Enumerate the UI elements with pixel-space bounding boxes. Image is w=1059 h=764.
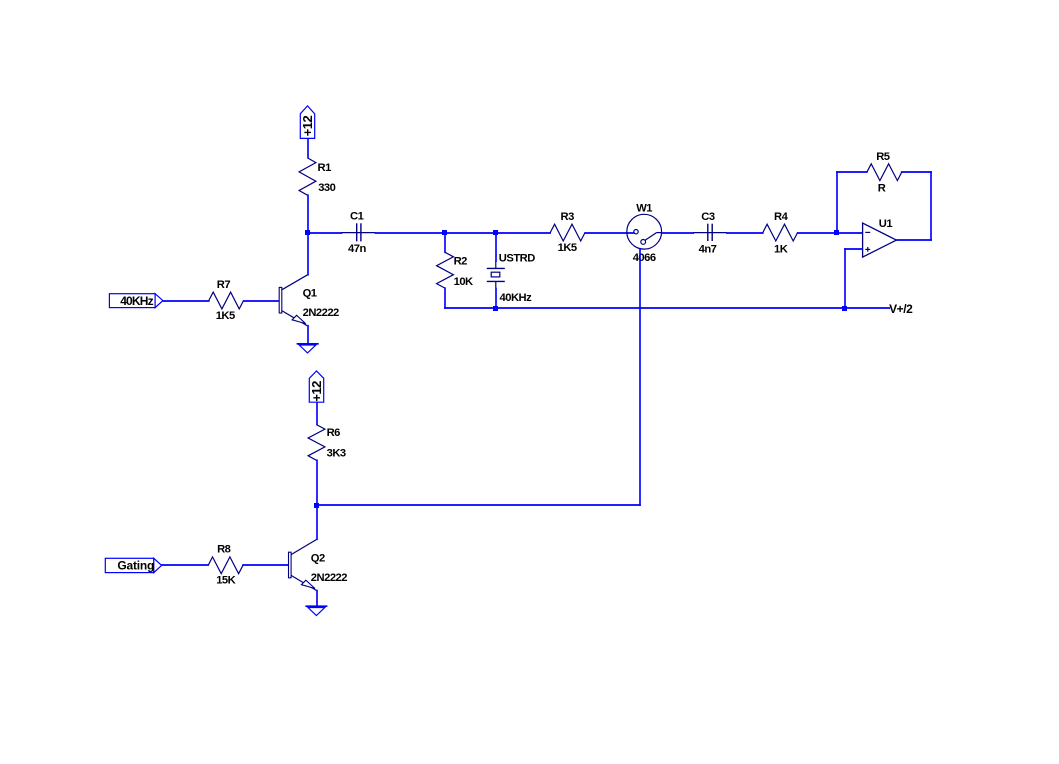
ground (Q1) <box>297 344 318 353</box>
wire R6 to node G <box>316 460 318 504</box>
resistor R8 <box>208 544 243 587</box>
wire feedback right vertical <box>930 172 932 240</box>
svg-text:40KHz: 40KHz <box>500 292 533 304</box>
svg-text:U1: U1 <box>879 218 893 230</box>
svg-text:Q1: Q1 <box>303 287 317 299</box>
wire R1 to node A <box>307 195 309 232</box>
input flag 40KHz <box>109 294 162 308</box>
wire 40KHz flag to R7 <box>164 300 209 302</box>
wire R8 to Q2 base <box>243 564 288 566</box>
wire C3 to R4 <box>727 232 763 234</box>
wire feedback top right <box>902 171 931 173</box>
svg-text:4n7: 4n7 <box>699 243 717 255</box>
svg-text:+12: +12 <box>309 381 324 402</box>
wire node B down to R2 <box>444 233 446 252</box>
wire Q2 emitter to ground <box>316 591 318 606</box>
wire C1 to node B <box>376 232 446 234</box>
svg-text:2N2222: 2N2222 <box>311 572 347 584</box>
wire node C to R3 <box>496 232 550 234</box>
svg-text:40KHz: 40KHz <box>120 294 153 308</box>
svg-text:10K: 10K <box>454 276 473 288</box>
node E (inverting input junction) <box>834 230 839 235</box>
svg-text:W1: W1 <box>636 202 652 214</box>
node A <box>305 230 310 235</box>
resistor R1 <box>299 158 336 195</box>
svg-text:Gating: Gating <box>117 558 154 572</box>
svg-text:R1: R1 <box>318 162 332 174</box>
svg-text:47n: 47n <box>348 243 366 255</box>
resistor R5 <box>867 151 902 195</box>
resistor R2 <box>437 252 473 288</box>
op-amp U1 <box>863 218 897 257</box>
wire R7 to Q1 base <box>244 300 279 302</box>
svg-text:R6: R6 <box>327 427 341 439</box>
svg-text:R8: R8 <box>217 544 231 556</box>
svg-text:R5: R5 <box>876 151 890 163</box>
wire Q2 collector <box>316 506 318 539</box>
svg-text:1K5: 1K5 <box>558 242 577 254</box>
wire Q1 emitter to ground <box>307 326 309 343</box>
wire plus input horizontal <box>845 248 862 250</box>
wire node B to node C <box>445 232 496 234</box>
switch W1 (4066) <box>627 202 662 264</box>
power flag +12 (lower) <box>309 371 324 402</box>
wire feedback left vertical <box>836 172 838 232</box>
wire +12 flag to R6 <box>316 403 318 425</box>
node B <box>442 230 447 235</box>
svg-text:USTRD: USTRD <box>499 252 535 264</box>
input flag Gating <box>105 558 161 572</box>
resistor R7 <box>209 279 244 322</box>
wire R4 to node E <box>798 232 837 234</box>
wire Gating flag to R8 <box>162 564 208 566</box>
resistor R6 <box>308 425 346 461</box>
svg-text:15K: 15K <box>216 575 235 587</box>
node C <box>493 230 498 235</box>
power flag +12 (top) <box>300 106 315 138</box>
wire W1 control down <box>639 250 641 506</box>
wire R2 to bottom rail <box>444 288 446 308</box>
transistor Q1 <box>279 275 339 326</box>
svg-text:R: R <box>878 183 886 195</box>
wire Q1 collector <box>307 234 309 275</box>
svg-text:V+/2: V+/2 <box>889 302 913 316</box>
node G (Q2 collector junction) <box>314 503 319 508</box>
svg-text:1K5: 1K5 <box>216 310 235 322</box>
svg-text:4066: 4066 <box>633 252 656 264</box>
bottom rail V+/2 wire <box>445 307 889 309</box>
svg-text:C3: C3 <box>701 211 715 223</box>
svg-text:R4: R4 <box>774 211 789 223</box>
ground (Q2) <box>306 606 326 615</box>
svg-text:R7: R7 <box>217 279 231 291</box>
capacitor C1 <box>342 211 376 255</box>
svg-text:Q2: Q2 <box>311 552 325 564</box>
resistor R4 <box>763 211 798 255</box>
transducer USTRD <box>487 233 535 308</box>
svg-text:R2: R2 <box>454 255 468 267</box>
resistor R3 <box>550 211 585 254</box>
wire +12 flag to R1 <box>307 139 309 158</box>
wire node G to switch control <box>317 504 641 506</box>
wire feedback top left <box>837 171 867 173</box>
wire node A to C1 <box>307 232 342 234</box>
wire op-amp output <box>897 239 931 241</box>
node F (plus input junction) <box>842 306 847 311</box>
wire W1 to C3 <box>662 232 694 234</box>
wire R3 to W1 <box>585 232 634 234</box>
wire node E to op-amp <box>837 232 862 234</box>
capacitor C3 <box>693 211 727 255</box>
svg-text:1K: 1K <box>774 243 788 255</box>
svg-text:3K3: 3K3 <box>327 448 346 460</box>
svg-text:R3: R3 <box>561 211 575 223</box>
wire plus input vertical <box>844 249 846 308</box>
svg-text:330: 330 <box>318 182 335 194</box>
svg-text:+12: +12 <box>300 115 315 136</box>
svg-text:2N2222: 2N2222 <box>303 307 339 319</box>
transistor Q2 <box>289 540 348 591</box>
node D (USTRD bottom) <box>493 306 498 311</box>
svg-text:C1: C1 <box>350 211 364 223</box>
